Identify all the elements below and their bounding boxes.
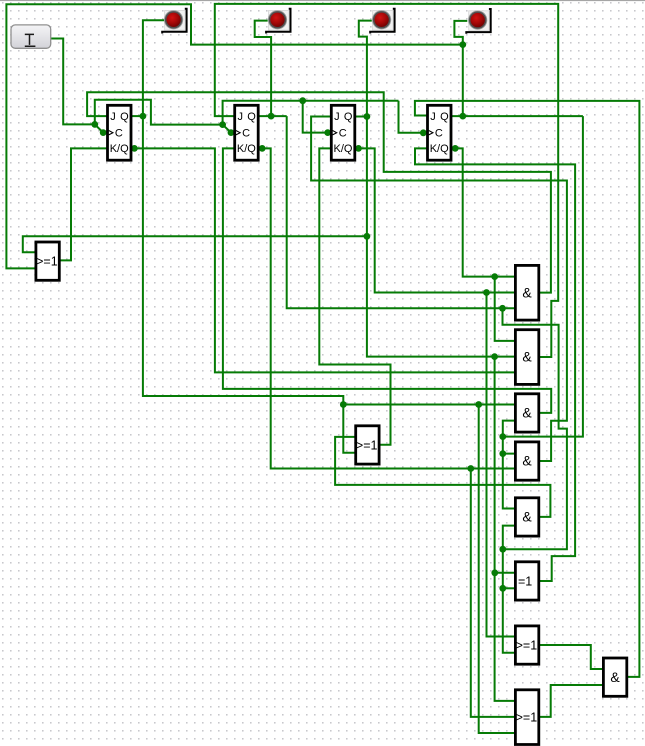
gate XOR (=1) (515, 562, 538, 600)
svg-text:J: J (238, 111, 244, 123)
LED L3 (370, 9, 395, 34)
svg-text:Q: Q (120, 111, 129, 123)
JK flip-flop FF3 (331, 105, 355, 160)
svg-text:&: & (522, 509, 532, 525)
LED L2 (266, 9, 291, 34)
wire J2 feedback net (AND2 output to FF2 J input) (215, 4, 558, 357)
svg-text:C: C (435, 127, 443, 139)
svg-text:Q: Q (344, 111, 353, 123)
svg-text:>=1: >=1 (356, 438, 378, 452)
wire Q1 net (FF1 Q to LED1, OR2 input B, AND3 input A, OR4 input C) (131, 20, 515, 733)
svg-text:K/Q: K/Q (237, 143, 256, 155)
svg-text:&: & (522, 284, 532, 300)
wire Q-bar4 net (FF4 /Q to AND1 input A, AND2 input A) (451, 145, 515, 341)
svg-text:Q: Q (440, 111, 449, 123)
LED L1 (162, 9, 187, 34)
wire K3 feedback net (OR2 output to FF3 K input) (319, 148, 390, 444)
svg-text:>=1: >=1 (36, 255, 58, 269)
svg-text:C: C (242, 127, 250, 139)
svg-text:>=1: >=1 (516, 638, 538, 652)
wire J1 feedback net (AND1 output to FF1 J input) (87, 92, 551, 292)
svg-text:&: & (610, 669, 620, 685)
svg-text:>=1: >=1 (516, 711, 538, 725)
svg-text:&: & (522, 405, 532, 421)
svg-text:K/Q: K/Q (334, 143, 353, 155)
wire Q3 net (FF3 Q to LED3, OR1 input A, AND2 input B, XOR input A, OR4 input A) (23, 21, 516, 701)
gate AND2 (&) (515, 330, 538, 385)
gate AND1 (&) (515, 265, 538, 320)
svg-text:C: C (115, 127, 123, 139)
svg-text:K/Q: K/Q (110, 143, 129, 155)
wire K1 feedback net (OR1 output to FF1 K input) (59, 148, 108, 260)
svg-text:&: & (522, 453, 532, 469)
svg-text:Q: Q (247, 111, 256, 123)
wire AND6 input B net (OR4 output to AND6 input B) (539, 685, 604, 717)
wire Q2 net (FF2 Q to LED2, AND1 input C, AND5 input B, XOR input B, OR3 input B) (255, 21, 567, 653)
svg-text:J: J (430, 111, 436, 123)
wire K4 feedback net (XOR output to FF4 K input) (415, 148, 575, 581)
gate AND6 (&) (603, 658, 626, 696)
svg-text:C: C (339, 127, 347, 139)
wire AND6 input A net (OR3 output to AND6 input A) (539, 645, 604, 669)
svg-text:J: J (334, 111, 340, 123)
gate OR1 (>=1) (36, 242, 59, 280)
wire Q-bar3 net (FF3 /Q to AND1 input B, OR3 input A) (355, 145, 516, 637)
svg-text:K/Q: K/Q (430, 143, 449, 155)
gate OR4 (>=1) (515, 690, 538, 745)
LED L4 (466, 9, 491, 34)
gate OR2 (>=1) (356, 426, 379, 464)
gate AND4 (&) (515, 442, 538, 480)
svg-text:=1: =1 (518, 574, 532, 588)
JK flip-flop FF2 (235, 105, 259, 160)
svg-text:&: & (522, 349, 532, 365)
wire Q4 net (FF4 Q to LED4, OR1 input B, AND3 input B, AND4 input A, AND5 input A) (6, 4, 583, 508)
gate AND5 (&) (515, 498, 538, 536)
gate OR3 (>=1) (515, 626, 538, 664)
JK flip-flop FF4 (428, 105, 452, 160)
wire J3 feedback net (AND4 output to FF3 J input) (311, 117, 567, 462)
wire OR2 input A net (AND5 output to OR2 input A) (335, 437, 550, 517)
wire Q-bar2 net (FF2 /Q to AND4 input B, OR4 input B) (258, 145, 515, 717)
svg-text:J: J (110, 111, 116, 123)
toggle input button T (11, 25, 51, 48)
gate AND3 (&) (515, 394, 538, 432)
wire Q-bar1 net (FF1 /Q to AND2 input C) (131, 145, 515, 372)
wire K2 feedback net (AND3 output to FF2 K input) (223, 148, 551, 413)
wire clock net (button to FF clock inputs) (51, 39, 427, 137)
JK flip-flop FF1 (108, 105, 132, 160)
canvas top edge (0, 0, 645, 1)
wire J4 feedback net (AND6 output to FF4 J input) (415, 101, 640, 677)
